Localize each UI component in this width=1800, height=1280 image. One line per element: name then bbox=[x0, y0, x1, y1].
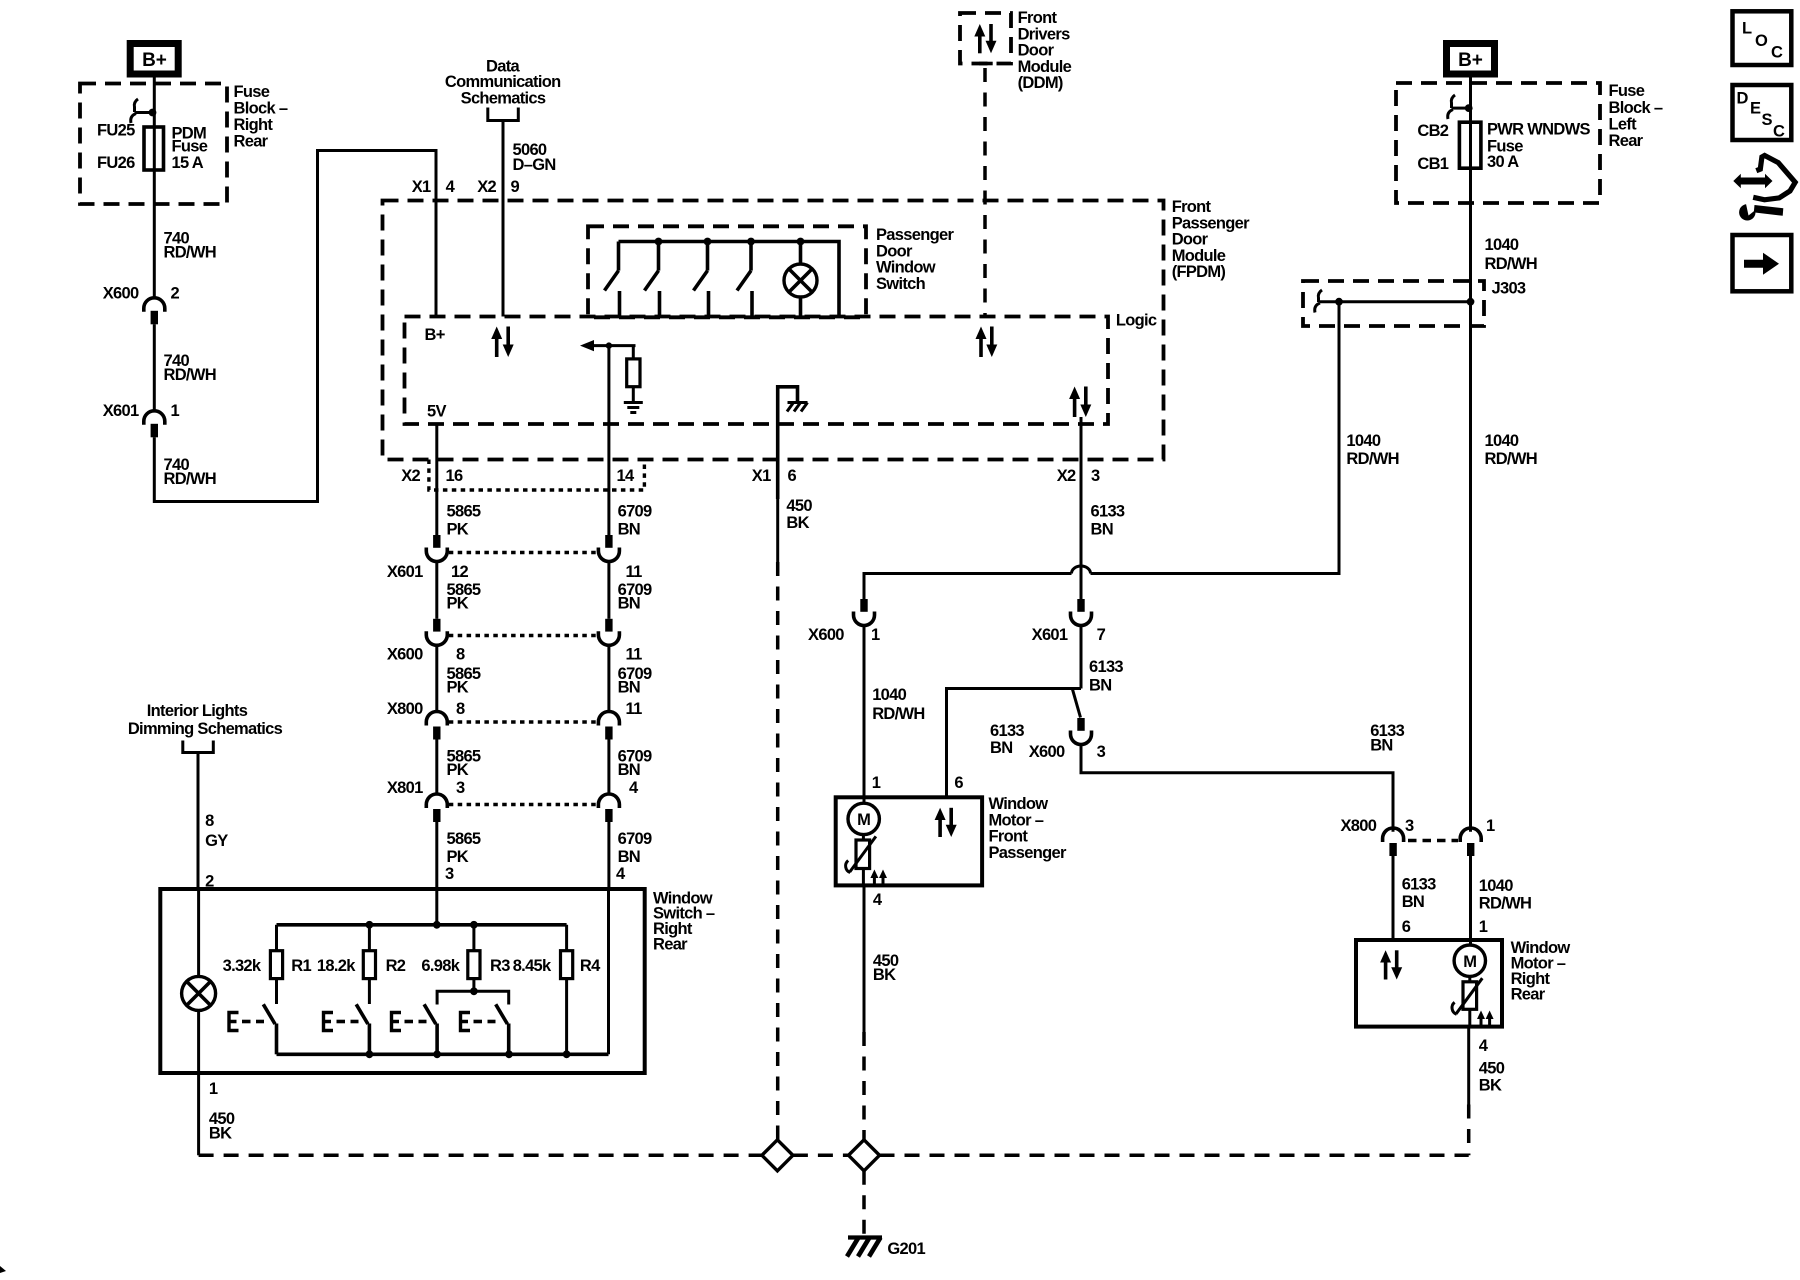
dashed wire DDM to logic bbox=[979, 64, 993, 317]
svg-text:BN: BN bbox=[1370, 737, 1392, 755]
svg-text:18.2k: 18.2k bbox=[317, 957, 356, 975]
svg-text:6709: 6709 bbox=[618, 503, 652, 521]
connector X601 pin 12 (mid) bbox=[387, 535, 469, 581]
switch SW3 (R3 left) bbox=[424, 1004, 437, 1054]
svg-text:14: 14 bbox=[617, 467, 635, 485]
svg-text:11: 11 bbox=[626, 563, 643, 581]
label 1040 RD/WH pin 1 bbox=[1479, 877, 1531, 936]
diagonal wire to X600-3 bbox=[1072, 689, 1080, 718]
svg-text:1040: 1040 bbox=[872, 686, 906, 704]
svg-text:B+: B+ bbox=[425, 326, 445, 344]
svg-text:L: L bbox=[1742, 20, 1752, 38]
interior lamp (switch illumination) bbox=[182, 889, 216, 1073]
crossing wire 1040 RD/WH (J303 branch to X600-1) bbox=[864, 302, 1339, 599]
svg-text:R3: R3 bbox=[490, 957, 510, 975]
svg-text:CB2: CB2 bbox=[1417, 122, 1448, 140]
svg-text:RD/WH: RD/WH bbox=[1346, 450, 1398, 468]
svg-text:R4: R4 bbox=[580, 957, 601, 975]
wire 1040 RD/WH to motor pin 1 bbox=[863, 626, 866, 804]
svg-text:X600: X600 bbox=[808, 626, 844, 644]
label 5865 PK bbox=[447, 581, 481, 613]
actuator E (SW1) bbox=[229, 1013, 264, 1031]
window motor front passenger box bbox=[836, 797, 982, 885]
switch SW4 (R3 right) bbox=[496, 1004, 509, 1054]
label pin 1 450 BK bbox=[209, 1080, 235, 1143]
connector X800 pin 11 (right of mid) bbox=[598, 712, 619, 740]
svg-text:PK: PK bbox=[447, 848, 469, 866]
svg-text:FU25: FU25 bbox=[97, 122, 135, 140]
svg-text:E: E bbox=[1750, 100, 1761, 118]
label 6133 BN (motor 6) bbox=[990, 722, 1024, 757]
wire to G201 (dashed) bbox=[862, 1171, 866, 1234]
chassis ground (logic) bbox=[787, 403, 808, 412]
wire 740 RD/WH (X601 down and over to FPDM X1-4) bbox=[154, 151, 436, 502]
wire 450 BK with chassis ground (X1-6) bbox=[778, 387, 798, 499]
svg-text:M: M bbox=[857, 811, 870, 829]
svg-text:5865: 5865 bbox=[447, 503, 481, 521]
svg-text:RD/WH: RD/WH bbox=[1485, 255, 1537, 273]
scan speck bottom left bbox=[0, 1266, 6, 1273]
svg-text:S: S bbox=[1762, 111, 1773, 129]
wire 5865 PK (X600 to X800) bbox=[435, 645, 438, 713]
wire 450 BK below switch bbox=[197, 1073, 200, 1155]
wire 1040 RD/WH (J303 down to X800-1) bbox=[1469, 302, 1472, 832]
splice diamond (450 BK motor) bbox=[849, 1140, 880, 1171]
svg-text:5865: 5865 bbox=[447, 830, 481, 848]
svg-text:PWR WNDWS: PWR WNDWS bbox=[1487, 121, 1590, 139]
svg-text:1: 1 bbox=[871, 626, 880, 644]
label Fuse Block Right Rear bbox=[234, 83, 288, 151]
svg-text:Fuse: Fuse bbox=[1609, 82, 1645, 100]
svg-text:X800: X800 bbox=[387, 700, 423, 718]
svg-text:BK: BK bbox=[873, 966, 896, 984]
svg-text:Communication: Communication bbox=[445, 73, 561, 91]
switch 2 bbox=[645, 242, 660, 317]
svg-text:450: 450 bbox=[1479, 1060, 1505, 1078]
switch 4 bbox=[737, 242, 752, 317]
off-page bracket bbox=[488, 108, 519, 121]
label 740 RD/WH bbox=[164, 352, 216, 384]
actuator E (SW2) bbox=[324, 1013, 359, 1031]
svg-text:Block –: Block – bbox=[1609, 99, 1663, 117]
svg-text:3: 3 bbox=[1405, 817, 1414, 835]
label 1040 RD/WH (left branch) bbox=[1346, 432, 1398, 468]
svg-text:1040: 1040 bbox=[1479, 877, 1513, 895]
svg-text:M: M bbox=[1463, 953, 1476, 971]
svg-text:Passenger: Passenger bbox=[989, 844, 1067, 862]
svg-text:8: 8 bbox=[205, 812, 214, 830]
label 1040 RD/WH bbox=[1485, 236, 1537, 273]
svg-text:30 A: 30 A bbox=[1487, 153, 1519, 171]
resistor (logic pull-up) bbox=[627, 346, 640, 402]
label PDM Fuse 15 A bbox=[172, 125, 208, 173]
svg-text:3: 3 bbox=[1091, 467, 1100, 485]
svg-text:1040: 1040 bbox=[1485, 432, 1519, 450]
svg-text:5V: 5V bbox=[427, 403, 446, 421]
svg-text:3.32k: 3.32k bbox=[223, 957, 262, 975]
svg-text:X2: X2 bbox=[1057, 467, 1076, 485]
label X2 pin 3 bbox=[1057, 467, 1100, 485]
svg-text:Left: Left bbox=[1609, 116, 1638, 134]
svg-text:PK: PK bbox=[447, 761, 469, 779]
svg-text:BN: BN bbox=[618, 679, 640, 697]
svg-text:RD/WH: RD/WH bbox=[872, 705, 924, 723]
wire 5865 PK (X601 to X600) bbox=[435, 562, 438, 619]
label 6709 BN pin 4 bbox=[618, 748, 652, 798]
label 8 GY pin 2 bbox=[205, 812, 228, 891]
wire motor fp pin 4 (450 BK) bbox=[863, 885, 866, 1139]
label 740 RD/WH bbox=[164, 456, 216, 488]
B+ battery symbol (left) bbox=[130, 44, 178, 75]
svg-text:Window: Window bbox=[876, 259, 936, 277]
up/down arrow pair (X2-3 output in logic) bbox=[1069, 387, 1091, 418]
up-up arrows (thermal rr) bbox=[1477, 1011, 1494, 1026]
switch SW1 (R1) bbox=[263, 979, 276, 1055]
label 5865 PK pin 3 bbox=[445, 830, 481, 883]
FPDM dashed box bbox=[383, 201, 1164, 460]
svg-text:PK: PK bbox=[447, 595, 469, 613]
svg-text:BN: BN bbox=[1089, 677, 1111, 695]
connector X600 pin 3 bbox=[1029, 718, 1106, 761]
logic dashed box bbox=[405, 317, 1109, 425]
B+ battery symbol (right) bbox=[1447, 44, 1495, 75]
label 6133 BN bbox=[1091, 503, 1125, 539]
svg-text:Fuse: Fuse bbox=[234, 83, 270, 101]
svg-text:(FPDM): (FPDM) bbox=[1172, 263, 1226, 281]
svg-text:Interior Lights: Interior Lights bbox=[147, 702, 248, 720]
label X1 pin 4 bbox=[412, 178, 456, 196]
dashed ground bus wire bbox=[199, 1154, 1469, 1158]
svg-text:X600: X600 bbox=[387, 646, 423, 664]
svg-text:RD/WH: RD/WH bbox=[164, 470, 216, 488]
wire 5060 D-GN bbox=[502, 121, 505, 317]
wire B+ to fuse bbox=[153, 78, 156, 128]
switch bus wire bbox=[619, 238, 840, 316]
left arrow with resistor node (logic) bbox=[580, 340, 636, 351]
label 740 RD/WH bbox=[164, 230, 216, 262]
svg-text:450: 450 bbox=[786, 497, 812, 515]
resistor R3 6.98k bbox=[421, 925, 510, 979]
svg-text:BN: BN bbox=[1091, 521, 1113, 539]
svg-text:Rear: Rear bbox=[653, 936, 688, 954]
svg-text:CB1: CB1 bbox=[1417, 155, 1448, 173]
svg-text:1: 1 bbox=[171, 402, 180, 420]
svg-text:B+: B+ bbox=[1458, 50, 1483, 71]
LOC icon box bbox=[1733, 11, 1792, 65]
svg-text:D: D bbox=[1737, 90, 1749, 108]
up/down arrow pair (DDM) bbox=[974, 24, 996, 53]
resistor top bus bbox=[277, 921, 567, 929]
wire 1040 RD/WH to motor pin 1 bbox=[1469, 856, 1472, 945]
motor M circle (rr) bbox=[1454, 945, 1485, 976]
dotted connector line X601 row bbox=[449, 551, 597, 554]
branch wire to motor pin 6 bbox=[947, 689, 1082, 798]
wire 6133 BN (X600-3 over to right) bbox=[1081, 745, 1393, 832]
off-page bracket bbox=[183, 741, 214, 753]
label 6133 BN bbox=[1089, 658, 1123, 695]
svg-text:X801: X801 bbox=[387, 779, 423, 797]
dotted connector line X600 row bbox=[449, 634, 597, 637]
svg-text:11: 11 bbox=[626, 700, 643, 718]
label 5865 PK bbox=[447, 665, 481, 697]
svg-text:X800: X800 bbox=[1340, 817, 1376, 835]
svg-text:X1: X1 bbox=[752, 467, 771, 485]
connector X800 pin 8 (mid) bbox=[387, 700, 465, 740]
svg-text:BN: BN bbox=[618, 761, 640, 779]
connector X2 dotted body (pins 16..14) bbox=[429, 460, 645, 491]
label PWR WNDWS Fuse 30 A bbox=[1487, 121, 1590, 172]
label Window Motor Front Passenger bbox=[989, 795, 1067, 862]
actuator E (SW4) bbox=[461, 1013, 496, 1031]
label 5865 PK bbox=[447, 748, 481, 780]
fuse clip symbol (right fuse block) bbox=[1448, 95, 1473, 119]
svg-text:BN: BN bbox=[618, 848, 640, 866]
svg-text:6133: 6133 bbox=[1402, 876, 1436, 894]
svg-text:RD/WH: RD/WH bbox=[1479, 895, 1531, 913]
svg-text:Passenger: Passenger bbox=[876, 226, 954, 244]
label 6709 BN bbox=[618, 503, 652, 539]
svg-text:8: 8 bbox=[456, 646, 465, 664]
connector X600 pin 1 bbox=[808, 599, 880, 644]
label X2 pin 9 bbox=[477, 178, 519, 196]
up-up arrows (thermal fp) bbox=[870, 870, 887, 885]
ground G201 bbox=[847, 1238, 882, 1257]
svg-text:16: 16 bbox=[446, 467, 463, 485]
svg-text:J303: J303 bbox=[1492, 280, 1526, 298]
wire 5865 PK (X801 to switch pin 3) bbox=[435, 822, 438, 925]
svg-text:X601: X601 bbox=[1032, 626, 1068, 644]
svg-text:3: 3 bbox=[456, 779, 465, 797]
dotted connector line X801 row bbox=[449, 803, 597, 806]
label 6709 BN bbox=[618, 581, 652, 613]
svg-text:6133: 6133 bbox=[1089, 658, 1123, 676]
svg-text:Dimming Schematics: Dimming Schematics bbox=[128, 720, 283, 738]
connector X600 pin 11 (right of mid) bbox=[598, 619, 642, 664]
splice diamond (450 BK X1-6) bbox=[762, 1140, 793, 1171]
svg-text:12: 12 bbox=[451, 563, 468, 581]
svg-text:Front: Front bbox=[989, 828, 1029, 846]
svg-text:X601: X601 bbox=[103, 402, 139, 420]
svg-text:9: 9 bbox=[511, 178, 520, 196]
label X2 pin 16 bbox=[401, 467, 463, 485]
wire 6709 BN (X600 to X800) bbox=[607, 645, 610, 713]
dotted connector line X800 row bbox=[449, 720, 597, 723]
svg-text:BN: BN bbox=[618, 595, 640, 613]
svg-text:1: 1 bbox=[1486, 817, 1495, 835]
window motor right rear box bbox=[1356, 940, 1502, 1027]
svg-text:Schematics: Schematics bbox=[461, 90, 546, 108]
svg-text:Door: Door bbox=[1172, 231, 1209, 249]
svg-text:X600: X600 bbox=[1029, 743, 1065, 761]
wire 5V to X601 (5865 PK) bbox=[435, 424, 438, 536]
label pin 1 and 6 bbox=[872, 774, 964, 792]
wire 5865 PK (X800 to X801) bbox=[435, 740, 438, 796]
passenger door window switch dashed box bbox=[588, 226, 866, 317]
svg-text:6: 6 bbox=[954, 774, 963, 792]
svg-text:X1: X1 bbox=[412, 178, 431, 196]
front drivers door module DDM dashed box bbox=[960, 13, 1011, 64]
diagnostic icon (arrows and wrench) bbox=[1733, 156, 1795, 221]
svg-text:BK: BK bbox=[209, 1125, 232, 1143]
wire 8 GY bbox=[197, 753, 200, 890]
svg-text:X600: X600 bbox=[103, 285, 139, 303]
forward arrow icon box bbox=[1733, 235, 1792, 291]
svg-text:Block –: Block – bbox=[234, 100, 288, 118]
resistor R2 18.2k bbox=[317, 925, 406, 979]
up/down arrow pair (DDM line in logic) bbox=[976, 327, 998, 358]
actuator E (SW3) bbox=[392, 1013, 427, 1031]
wire motor rr pin 4 (450 BK) bbox=[1467, 1027, 1470, 1156]
label Front Drivers Door Module (DDM) bbox=[1018, 9, 1072, 92]
label 6709 BN pin 4 bbox=[616, 830, 652, 883]
svg-text:Front: Front bbox=[1018, 9, 1058, 27]
svg-text:3: 3 bbox=[445, 865, 454, 883]
label Front Passenger Door Module (FPDM) bbox=[1172, 198, 1250, 281]
label Fuse Block Left Rear bbox=[1609, 82, 1663, 150]
svg-text:Door: Door bbox=[876, 242, 913, 260]
svg-text:1: 1 bbox=[872, 774, 881, 792]
wire 740 RD/WH (fuse to X600) bbox=[153, 170, 156, 298]
wire logic node to X601 (6709 BN) bbox=[607, 346, 610, 536]
svg-text:8: 8 bbox=[456, 700, 465, 718]
fuse block right rear dashed box bbox=[80, 84, 227, 205]
label pin 4 450 BK bbox=[873, 891, 899, 984]
fuse block left rear dashed box bbox=[1396, 83, 1600, 203]
switch 1 (window switch contact) bbox=[605, 242, 620, 317]
label Interior Lights Dimming Schematics bbox=[128, 702, 283, 738]
svg-text:Door: Door bbox=[1018, 42, 1055, 60]
connector X600 pin 2 (left) bbox=[103, 285, 180, 325]
R3 split bar node bbox=[437, 979, 509, 1005]
svg-text:C: C bbox=[1771, 44, 1783, 62]
switch 3 bbox=[694, 242, 709, 317]
svg-text:(DDM): (DDM) bbox=[1018, 74, 1063, 92]
svg-text:PK: PK bbox=[447, 679, 469, 697]
up/down arrow pair (motor rr) bbox=[1380, 950, 1402, 979]
svg-text:15 A: 15 A bbox=[172, 154, 204, 172]
ground (logic resistor) bbox=[624, 403, 643, 413]
svg-text:8.45k: 8.45k bbox=[513, 957, 552, 975]
svg-text:RD/WH: RD/WH bbox=[164, 366, 216, 384]
window switch right rear box bbox=[160, 889, 644, 1073]
svg-text:Fuse: Fuse bbox=[172, 138, 208, 156]
label X1 pin 6 bbox=[752, 467, 797, 485]
wire B+ to breaker bbox=[1469, 78, 1472, 123]
switch bottom bus to pin 4 bbox=[277, 889, 609, 1058]
svg-text:2: 2 bbox=[205, 873, 214, 891]
dashed connector link X800 bbox=[1408, 839, 1458, 843]
svg-text:Window: Window bbox=[989, 795, 1049, 813]
svg-text:B+: B+ bbox=[142, 50, 167, 71]
svg-text:R2: R2 bbox=[386, 957, 406, 975]
svg-text:X601: X601 bbox=[387, 563, 423, 581]
label 1040 RD/WH (right) bbox=[1485, 432, 1537, 468]
svg-text:R1: R1 bbox=[291, 957, 311, 975]
fuse PDM 15A bbox=[144, 127, 164, 170]
J303 internal wire and clip bbox=[1315, 290, 1475, 313]
svg-text:6: 6 bbox=[1402, 918, 1411, 936]
svg-text:Right: Right bbox=[234, 116, 274, 134]
wire 6133 BN to motor pin 6 bbox=[1392, 856, 1395, 940]
fuse clip symbol (left fuse block) bbox=[131, 99, 157, 123]
svg-text:BN: BN bbox=[1402, 893, 1424, 911]
wire 6709 BN (X801 to switch pin 4) bbox=[607, 822, 610, 889]
svg-text:7: 7 bbox=[1097, 626, 1106, 644]
motor M circle bbox=[848, 803, 879, 834]
switch SW2 (R2) bbox=[356, 979, 369, 1055]
svg-text:1: 1 bbox=[1479, 918, 1488, 936]
connector X600 pin 8 (mid) bbox=[387, 619, 465, 664]
resistor R4 8.45k bbox=[513, 925, 601, 979]
label Passenger Door Window Switch bbox=[876, 226, 954, 293]
svg-text:Switch: Switch bbox=[876, 275, 926, 293]
label 6133 BN pin 6 bbox=[1402, 876, 1436, 937]
svg-text:O: O bbox=[1755, 32, 1768, 50]
svg-text:C: C bbox=[1773, 123, 1785, 141]
connector X800 pin 1 bbox=[1460, 817, 1495, 856]
wire 6709 BN (X800 to X801) bbox=[607, 740, 610, 796]
label 6133 BN (right) bbox=[1370, 722, 1404, 755]
connector X801 pin 3 (mid) bbox=[387, 779, 465, 822]
svg-text:1040: 1040 bbox=[1346, 432, 1380, 450]
wire 6133 BN (X601-7 down) bbox=[1080, 626, 1083, 689]
svg-text:BN: BN bbox=[990, 739, 1012, 757]
svg-text:6.98k: 6.98k bbox=[421, 957, 460, 975]
svg-text:RD/WH: RD/WH bbox=[164, 244, 216, 262]
svg-text:RD/WH: RD/WH bbox=[1485, 450, 1537, 468]
svg-text:Rear: Rear bbox=[1609, 132, 1644, 150]
svg-text:X2: X2 bbox=[477, 178, 496, 196]
label 1040 RD/WH bbox=[872, 686, 924, 723]
svg-text:D–GN: D–GN bbox=[513, 156, 556, 174]
svg-text:6133: 6133 bbox=[990, 722, 1024, 740]
svg-text:FU26: FU26 bbox=[97, 154, 135, 172]
svg-text:6709: 6709 bbox=[618, 830, 652, 848]
svg-text:G201: G201 bbox=[887, 1240, 925, 1258]
svg-text:Rear: Rear bbox=[1511, 986, 1546, 1004]
connector X601 pin 11 (right of mid) bbox=[598, 535, 642, 581]
label pin 4 450 BK (rr) bbox=[1479, 1037, 1505, 1095]
circuit breaker PWR WNDWS 30A bbox=[1459, 122, 1481, 168]
thermal limiter (motor rr) bbox=[1452, 976, 1482, 1026]
svg-text:BK: BK bbox=[1479, 1077, 1502, 1095]
svg-text:X2: X2 bbox=[401, 467, 420, 485]
wire pin 3 into switch (continues inside) bbox=[433, 921, 441, 929]
DESC icon box bbox=[1733, 85, 1792, 141]
switch illumination lamp bbox=[784, 242, 817, 318]
svg-text:Front: Front bbox=[1172, 198, 1212, 216]
wire 450 BK from X1-6 (dashed) bbox=[776, 498, 779, 562]
label Window Switch Right Rear bbox=[653, 889, 715, 953]
up/down arrow pair (motor fp) bbox=[935, 808, 957, 837]
connector X601 pin 1 (left) bbox=[103, 402, 180, 437]
wire 1040 RD/WH (breaker to J303) bbox=[1469, 168, 1472, 302]
svg-text:PK: PK bbox=[447, 521, 469, 539]
wire 740 RD/WH (X600 to X601) bbox=[153, 324, 156, 411]
svg-text:6133: 6133 bbox=[1091, 503, 1125, 521]
label Window Motor Right Rear bbox=[1511, 939, 1571, 1004]
label 450 BK (X1-6) bbox=[786, 497, 812, 532]
label 5060 D-GN bbox=[513, 141, 556, 174]
connector X800 pin 3 bbox=[1340, 817, 1414, 856]
thermal limiter (motor fp) bbox=[846, 835, 876, 886]
svg-text:3: 3 bbox=[1097, 743, 1106, 761]
svg-text:6: 6 bbox=[788, 467, 797, 485]
svg-text:1040: 1040 bbox=[1485, 236, 1519, 254]
svg-text:1: 1 bbox=[209, 1080, 218, 1098]
svg-text:BK: BK bbox=[786, 514, 809, 532]
svg-text:GY: GY bbox=[205, 832, 228, 850]
